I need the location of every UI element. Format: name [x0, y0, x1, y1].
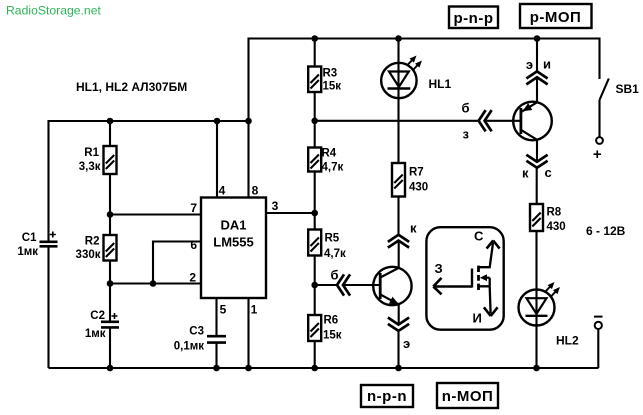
transistor p-n-p socket (test transistor) [513, 102, 552, 141]
svg-text:3,3к: 3,3к [79, 161, 101, 173]
wire pin 1 [247, 298, 249, 368]
svg-text:R8: R8 [547, 207, 562, 219]
resistor R2 [76, 235, 117, 261]
wire pin 2 [110, 282, 201, 284]
svg-text:6: 6 [190, 238, 197, 252]
svg-text:SB1: SB1 [616, 82, 640, 96]
wire pin 7 [110, 213, 201, 215]
svg-text:8: 8 [252, 184, 259, 198]
capacitor C1 [17, 232, 57, 259]
wire V+ bus to DA1 [49, 120, 249, 122]
wire pin 4 riser [216, 121, 218, 198]
wire collector socket to n-p-n [398, 241, 400, 268]
resistor R7 [392, 163, 428, 197]
wire HL1 R7 branch [397, 39, 399, 235]
svg-text:15к: 15к [323, 330, 342, 342]
MOSFET channel [477, 266, 480, 290]
wire R1 R2 C2 column [109, 121, 111, 368]
svg-text:с: с [545, 165, 552, 180]
svg-text:4,7к: 4,7к [324, 248, 346, 260]
svg-text:4,7к: 4,7к [322, 162, 344, 174]
switch SB1 [596, 79, 639, 144]
resistor R3 [308, 67, 341, 93]
svg-text:З: З [435, 261, 443, 276]
svg-text:1: 1 [251, 303, 258, 317]
svg-text:n-МОП: n-МОП [442, 388, 494, 405]
svg-text:RadioStorage.net: RadioStorage.net [6, 4, 101, 18]
wire top V+ bus [249, 37, 600, 39]
svg-text:15к: 15к [323, 81, 342, 93]
svg-text:0,1мк: 0,1мк [174, 341, 204, 353]
svg-text:3: 3 [272, 199, 279, 213]
wire n-p-n base drive [315, 284, 381, 286]
LED HL2 [519, 280, 579, 348]
svg-text:р-МОП: р-МОП [530, 9, 582, 26]
wire p-n-p collector to socket [536, 140, 538, 204]
svg-text:430: 430 [409, 182, 428, 194]
IC DA1 LM555 [201, 198, 266, 299]
connector socket э (n-p-n emitter) [389, 318, 410, 351]
LED HL1 [381, 53, 451, 98]
wire p-n-p emitter socket to top bus [536, 39, 538, 103]
MOSFET drain lead with arrow to С [479, 243, 494, 267]
MOSFET source lead with arrow to И [479, 278, 491, 314]
connector socket э/и (p-n-p emitter) [526, 57, 551, 84]
resistor R4 [308, 148, 343, 174]
resistor R8 [530, 204, 566, 233]
resistor R1 [79, 146, 117, 174]
transistor n-p-n socket (test transistor) [373, 267, 411, 308]
svg-text:C2: C2 [90, 310, 105, 322]
minus battery terminal [594, 317, 603, 329]
svg-text:э: э [526, 57, 533, 72]
svg-text:DA1: DA1 [220, 218, 246, 233]
wire pin 3 output [266, 212, 315, 214]
svg-text:R1: R1 [84, 147, 99, 159]
svg-text:430: 430 [547, 221, 566, 233]
wire SB1 upper lead [598, 38, 600, 80]
svg-text:R5: R5 [325, 233, 340, 245]
MOSFET gate lead with arrow to З [434, 269, 473, 288]
svg-text:э: э [403, 336, 410, 351]
capacitor C3 [174, 326, 226, 353]
MOSFET pinout inset box [426, 227, 503, 330]
svg-text:к: к [522, 166, 529, 181]
node junction dots [107, 35, 541, 371]
svg-text:2: 2 [189, 271, 196, 285]
svg-text:б: б [462, 101, 470, 116]
resistor R6 [308, 315, 342, 342]
svg-text:7: 7 [190, 201, 197, 215]
svg-text:R4: R4 [322, 148, 337, 160]
svg-text:R3: R3 [323, 68, 338, 80]
svg-text:6 - 12В: 6 - 12В [586, 224, 626, 238]
resistor R5 [308, 230, 346, 261]
svg-text:HL1, HL2 АЛ307БМ: HL1, HL2 АЛ307БМ [76, 80, 187, 94]
svg-text:LM555: LM555 [213, 235, 253, 250]
svg-text:HL1: HL1 [429, 77, 452, 91]
label box n-МОП [437, 383, 498, 408]
svg-text:C3: C3 [189, 326, 204, 338]
label box р-МОП [520, 4, 592, 28]
svg-text:к: к [410, 221, 417, 236]
wire p-n-p base line [315, 120, 521, 122]
wire bottom ground bus [49, 367, 599, 369]
svg-text:1мк: 1мк [85, 328, 106, 340]
connector socket к (n-p-n collector) [389, 221, 417, 247]
MOSFET substrate arrow [486, 277, 490, 279]
wire R8 to HL2 to ground bus [535, 231, 537, 368]
wire minus terminal lead [597, 329, 599, 368]
connector socket к/с (p-n-p collector) [522, 156, 552, 181]
svg-text:И: И [473, 311, 482, 326]
wire left supply rail [47, 120, 49, 368]
svg-text:5: 5 [220, 303, 227, 317]
svg-text:1мк: 1мк [17, 246, 38, 258]
svg-text:з: з [463, 127, 470, 142]
svg-text:R6: R6 [324, 315, 339, 327]
svg-text:R2: R2 [85, 236, 100, 248]
svg-text:+: + [593, 146, 602, 163]
svg-text:330к: 330к [76, 249, 101, 261]
svg-text:4: 4 [219, 184, 226, 198]
wire n-p-n emitter to socket [397, 305, 399, 369]
svg-text:p-n-p: p-n-p [454, 10, 494, 27]
svg-text:C1: C1 [22, 232, 37, 244]
wire R3-R6 divider column [314, 39, 316, 369]
wire pin 5 / C3 [215, 298, 217, 368]
svg-text:б: б [331, 268, 339, 283]
wire pin 6 [153, 242, 201, 284]
connector socket б (n-p-n base) [331, 268, 350, 295]
capacitor C2 [85, 310, 119, 340]
svg-text:n-p-n: n-p-n [367, 388, 407, 405]
wire pin8 riser [247, 38, 249, 198]
connector socket б/з (p-n-p base) [462, 101, 491, 142]
label box p-n-p [449, 7, 498, 29]
svg-text:и: и [543, 57, 551, 72]
svg-text:R7: R7 [409, 167, 424, 179]
label box n-p-n [361, 385, 413, 407]
svg-text:С: С [474, 229, 484, 244]
svg-text:HL2: HL2 [556, 334, 579, 348]
